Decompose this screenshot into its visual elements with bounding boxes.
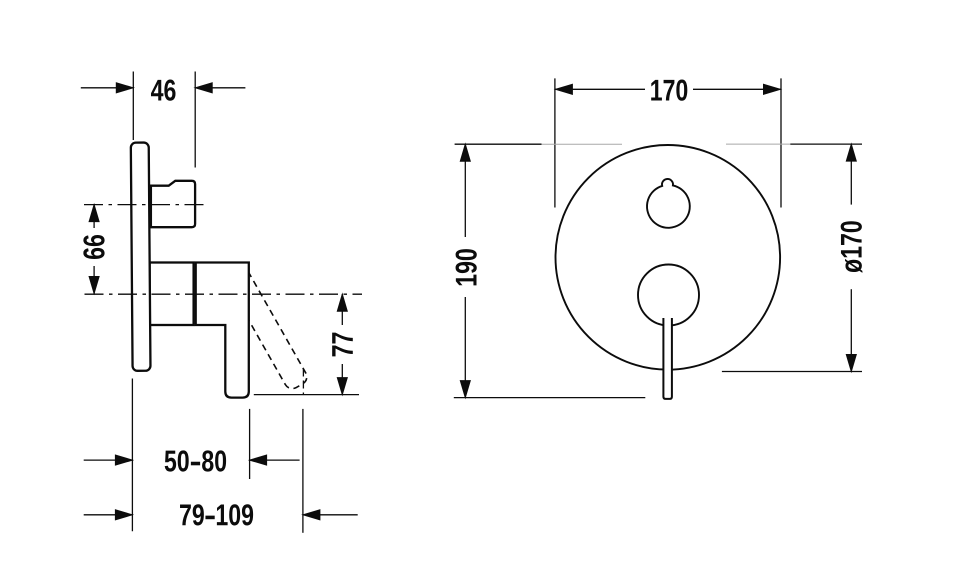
escutcheon plate (front view, big circle) xyxy=(556,145,781,370)
dim 77 extension line bottom xyxy=(254,394,359,396)
mixer handle hub (front view) xyxy=(638,265,699,326)
faint continuation of 190 top extension line xyxy=(542,143,623,145)
dim 170 line right + arrow xyxy=(693,88,781,90)
mixer lever stick (front view) xyxy=(663,318,672,399)
dim 66 line top segment xyxy=(93,205,95,228)
dim 190 line bottom + arrow xyxy=(464,297,466,397)
dim 190 extension line top xyxy=(455,143,542,145)
escutcheon plate (side view) xyxy=(131,143,151,371)
dim 77 line bottom segment xyxy=(341,364,343,395)
extension from dashed lever tip xyxy=(302,369,304,395)
dim 79-109 arrow right xyxy=(303,514,358,516)
dim 190 extension line bottom xyxy=(454,397,646,399)
dim 46 arrow left xyxy=(81,87,133,89)
label 50-80 xyxy=(165,450,226,471)
dim 66 line bottom segment xyxy=(93,266,95,294)
dim 50-80 arrow left xyxy=(84,459,133,461)
label 46 xyxy=(151,80,176,101)
dim 46 extension line right xyxy=(194,72,196,168)
dim 170 line left + arrow xyxy=(555,88,645,90)
faint continuation of ø170 top extension line xyxy=(726,143,790,145)
dim ø170 extension line top xyxy=(790,143,862,145)
label 190 xyxy=(456,249,477,285)
mixer handle body and lever (side view) xyxy=(196,263,249,398)
label ø170 xyxy=(841,221,863,273)
extension line dashed-lever front xyxy=(302,409,304,533)
label 77 xyxy=(332,333,353,357)
diverter knob (front view) with index tab xyxy=(647,179,690,228)
dim 77 line top segment xyxy=(341,294,343,325)
dim 170 extension line left xyxy=(554,78,556,207)
label 79-109 xyxy=(180,504,253,525)
dim 46 arrow right xyxy=(196,87,246,89)
label 170 xyxy=(651,80,687,101)
dim 50-80 arrow right xyxy=(250,459,300,461)
dim 170 extension line right xyxy=(780,78,782,207)
lever alternate position (dashed) xyxy=(223,263,310,392)
dim 190 line top + arrow xyxy=(464,145,466,238)
diverter knob (side view) xyxy=(151,181,195,227)
dim ø170 line bottom + arrow xyxy=(850,289,852,371)
dim ø170 extension line bottom xyxy=(722,371,862,373)
extension line lever front xyxy=(249,409,251,479)
dim 79-109 arrow left xyxy=(84,514,133,516)
dim ø170 line top + arrow xyxy=(850,144,852,204)
dim 46 extension line left xyxy=(132,72,134,141)
label 66 xyxy=(83,235,104,259)
centerline upper knob xyxy=(84,204,208,206)
long extension line left (plate face) xyxy=(131,379,133,532)
centerline lower handle xyxy=(85,293,363,295)
handle adapter block xyxy=(150,263,194,326)
